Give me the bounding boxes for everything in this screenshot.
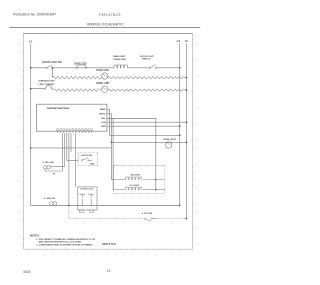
outer schematic border bbox=[24, 34, 193, 250]
wire exitB broil to oven light line bbox=[107, 114, 114, 180]
lock box pin blocks bbox=[79, 210, 83, 212]
svg-text:DLB: DLB bbox=[101, 122, 106, 124]
wire L1 mid line bbox=[31, 147, 112, 149]
junction L2 exitA bbox=[179, 134, 181, 136]
wire pin4 long bbox=[68, 133, 70, 206]
svg-text:19: 19 bbox=[107, 269, 111, 273]
heater element square bumps on W1 bbox=[114, 65, 127, 68]
svg-text:DOOR LIGHT: DOOR LIGHT bbox=[140, 56, 154, 58]
wire exitD to N bbox=[107, 121, 186, 123]
junction L1-W3 bbox=[30, 88, 32, 90]
BR light element bbox=[114, 179, 126, 181]
svg-text:0605: 0605 bbox=[23, 270, 30, 274]
switch S2 door light bbox=[149, 67, 151, 69]
OV light element bbox=[114, 189, 126, 191]
svg-text:LATCH SW: LATCH SW bbox=[81, 154, 92, 157]
door lock box bbox=[78, 187, 97, 210]
pin stub wires bbox=[58, 131, 92, 133]
wire exitE to L2 bbox=[107, 125, 180, 127]
svg-text:OVEN LIGHT: OVEN LIGHT bbox=[163, 139, 177, 141]
svg-text:N: N bbox=[185, 39, 188, 43]
L2 bus wire bbox=[179, 44, 181, 206]
wire W3 L1 to N broil bbox=[31, 88, 45, 90]
wire into lamps box bbox=[112, 119, 115, 190]
svg-text:DOOR LOCK: DOOR LOCK bbox=[81, 189, 94, 191]
lower bus wire from L1 to L2 bbox=[31, 205, 180, 207]
svg-text:BAKE: BAKE bbox=[100, 108, 106, 111]
wire pin2 bbox=[50, 133, 64, 166]
wire oven light line to N bbox=[111, 141, 186, 143]
junction N exitD bbox=[186, 121, 188, 123]
MDL motor twin circles bbox=[43, 166, 46, 169]
junction N bottom bbox=[186, 218, 188, 220]
EOC bottom connector pins bbox=[56, 129, 92, 131]
svg-text:▲ TOD SW: ▲ TOD SW bbox=[141, 212, 152, 215]
svg-text:BAKE UNIT: BAKE UNIT bbox=[96, 69, 109, 72]
thermal switch TOD on W1 bbox=[76, 67, 78, 69]
svg-text:BROIL: BROIL bbox=[99, 114, 106, 116]
W3 continues element run to N bbox=[108, 89, 185, 91]
svg-text:2. COMPONENT PART W SHOWN OPT: 2. COMPONENT PART W SHOWN OPTION OF WIRI… bbox=[36, 243, 93, 246]
svg-text:BR LIGHT: BR LIGHT bbox=[131, 175, 142, 177]
junction L1-W1 bbox=[30, 67, 32, 69]
svg-text:5361775A: 5361775A bbox=[102, 242, 117, 246]
svg-text:WIRING SCHEMATIC: WIRING SCHEMATIC bbox=[87, 23, 125, 27]
bottom dashed wire to N bbox=[69, 206, 143, 219]
svg-text:LINE: LINE bbox=[101, 126, 106, 128]
svg-text:2500W 240V: 2500W 240V bbox=[113, 58, 126, 61]
svg-text:▲ YELLOW: ▲ YELLOW bbox=[42, 161, 54, 164]
junction pin4 lower bbox=[68, 205, 70, 207]
W2 continues element run to N bbox=[108, 77, 185, 79]
junction exitC row2 bbox=[155, 189, 157, 191]
control board box EOC bbox=[37, 104, 107, 131]
lamp/receptacle circle on W3 bbox=[102, 86, 108, 92]
svg-text:NOTES:: NOTES: bbox=[30, 234, 40, 238]
border top edge solid bbox=[24, 33, 193, 35]
svg-text:BROIL UNIT: BROIL UNIT bbox=[96, 83, 110, 85]
wire W1 L1 to L2 bbox=[31, 67, 47, 69]
wire pin3 bbox=[67, 133, 78, 160]
wire W2 bake element run bbox=[52, 76, 101, 79]
wire pin5 bbox=[70, 133, 72, 152]
svg-text:AND VIEW SHOWN WITH ALL COLOUR: AND VIEW SHOWN WITH ALL COLOURS. bbox=[39, 241, 82, 244]
wire exitC lamp feed bbox=[107, 119, 156, 190]
tap wire from S1 down to W2 bbox=[51, 68, 53, 78]
TOD switch blade bottom bbox=[144, 218, 145, 219]
svg-text:SWITCH: SWITCH bbox=[142, 59, 151, 61]
junction L2 exitE bbox=[179, 125, 181, 127]
wire pin6 to lock box bbox=[75, 133, 77, 187]
broil element run bbox=[54, 89, 102, 92]
svg-text:L2: L2 bbox=[177, 39, 181, 43]
junction N-W2 bbox=[186, 77, 188, 79]
junction exitB light line bbox=[111, 141, 113, 143]
svg-text:L1: L1 bbox=[29, 39, 33, 43]
svg-text:MDL: MDL bbox=[101, 118, 106, 120]
svg-text:Publication No. 5995410847: Publication No. 5995410847 bbox=[13, 13, 56, 17]
latch switch dashed box bbox=[78, 152, 98, 165]
switch S1 door lock bbox=[46, 67, 48, 69]
lock contact 1 bbox=[79, 194, 85, 205]
svg-text:P2: P2 bbox=[53, 174, 56, 176]
svg-text:FEFL67DCS: FEFL67DCS bbox=[99, 13, 121, 17]
wire exitA bake to L2 bbox=[107, 109, 180, 135]
svg-text:BAKE UNIT: BAKE UNIT bbox=[113, 55, 126, 58]
junction exitC row1 bbox=[155, 179, 157, 181]
thermostat switch on W3 bbox=[44, 88, 46, 90]
oven light lamp bbox=[165, 142, 171, 148]
latch switch blade bbox=[81, 160, 82, 161]
svg-text:MDL: MDL bbox=[90, 164, 95, 166]
svg-text:LIMIT THERMO: LIMIT THERMO bbox=[39, 84, 55, 86]
svg-text:DOOR LOCK SW: DOOR LOCK SW bbox=[43, 61, 63, 64]
header rule bbox=[10, 27, 201, 29]
pin harness verticals bbox=[45, 133, 63, 171]
junction L1 mid bbox=[30, 147, 32, 149]
N bus wire bbox=[185, 44, 187, 219]
svg-text:▲ YELLOW: ▲ YELLOW bbox=[44, 197, 56, 200]
svg-text:ELECTRONIC OVEN CONTROL: ELECTRONIC OVEN CONTROL bbox=[47, 108, 70, 110]
lock contact 2 bbox=[88, 194, 94, 205]
junction L2-W1 bbox=[179, 67, 181, 69]
junction L2 lower bbox=[179, 205, 181, 207]
L1 bus wire bbox=[30, 44, 32, 206]
lamps dashed box bbox=[114, 165, 165, 193]
junction N oven light bbox=[186, 141, 188, 143]
lower twin circles component bbox=[50, 202, 54, 206]
junction tap bbox=[52, 67, 54, 69]
junction N-W3 bbox=[186, 89, 188, 91]
lamp/receptacle circle on W2 bbox=[102, 73, 108, 79]
svg-text:SURFACE UNIT: SURFACE UNIT bbox=[39, 80, 56, 83]
